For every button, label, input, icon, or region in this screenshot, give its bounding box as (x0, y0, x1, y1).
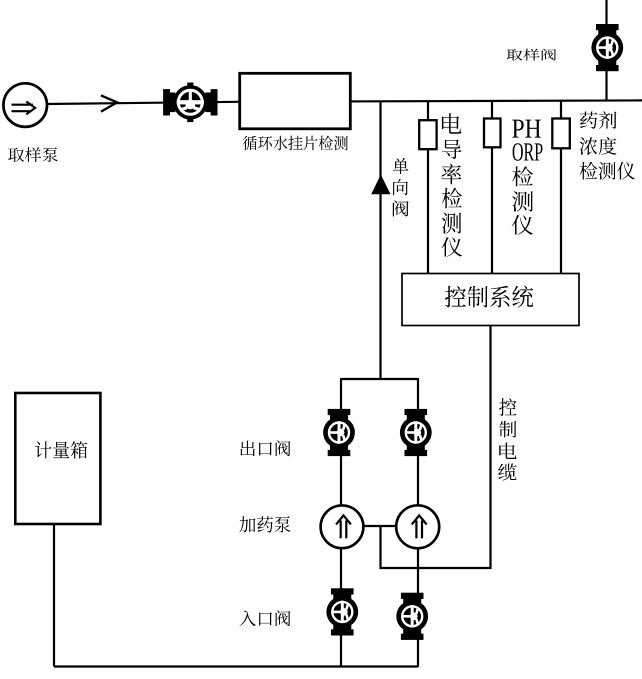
pump P2 dosing pump left circle (321, 505, 364, 548)
valve V1 on main pipe (flanged ball valve, horizontal) (163, 83, 217, 123)
label 检测仪 line3 of concentration meter (580, 162, 635, 180)
valve V6 inlet valve right (vertical, offset left of its line) (396, 593, 428, 640)
label 取样泵 (sampling pump) (8, 147, 58, 162)
label 控制系统 (control system) (445, 286, 533, 308)
wire: conductivity meter drop (427, 101, 429, 274)
valve V4 outlet valve right (vertical) (400, 409, 432, 456)
pump P3 dosing pump right circle (396, 505, 439, 548)
flow arrowhead on main pipe (101, 95, 117, 111)
label 计量箱 (metering tank) (35, 441, 87, 458)
label 出口阀 (outlet valves) (240, 440, 290, 456)
up double-arrow inside dosing pump right (412, 515, 427, 538)
label ORP line2 of PH/ORP meter (513, 143, 543, 161)
wire: PH/ORP meter drop (491, 101, 493, 274)
instrument pocket: concentration sensor (552, 119, 570, 149)
label 电导率检测仪 vertical (conductivity meter) (441, 113, 462, 257)
instrument pocket: PH/ORP sensor (484, 119, 501, 148)
wire: metering tank outlet drop (53, 523, 55, 667)
label 循环水挂片检测 (circulating water coupon test) (243, 136, 348, 151)
wire: pump manifold top header (341, 378, 418, 380)
label 取样阀 (sampling valve) (507, 49, 557, 61)
label 单向阀 vertical (check valve) (393, 158, 409, 217)
box: 计量箱 metering tank (15, 393, 100, 524)
label PH line1 of PH/ORP meter (512, 120, 541, 138)
valve V2 取样阀 sampling valve (vertical) (591, 24, 623, 71)
wire: sampling valve riser at top right (605, 0, 607, 101)
double arrow glyph inside sampling pump (12, 102, 36, 115)
wire: concentration meter drop (560, 101, 562, 274)
label 检测仪 vertical (of PH/ORP meter) (512, 166, 534, 235)
label 浓度 line2 of concentration meter (580, 137, 617, 155)
pump P1 取样泵 sampling pump circle (3, 83, 47, 127)
up double-arrow inside dosing pump left (336, 515, 351, 538)
wire: check valve drop to pump manifold (379, 101, 381, 380)
wire: connector between the two dosing pumps (363, 525, 397, 527)
valve V5 inlet valve left (vertical) (326, 588, 358, 635)
wire: right branch (outlet valve, pump, inlet valve) (417, 378, 419, 667)
label 药剂 line1 of concentration meter (580, 111, 617, 128)
wire: bottom suction line (54, 665, 418, 667)
wire: control cable from control system to dosing pump (381, 326, 491, 568)
wire: left branch (outlet valve, pump, inlet valve) (340, 378, 342, 667)
label 入口阀 (inlet valves) (239, 610, 290, 626)
label 加药泵 (dosing pumps) (239, 516, 290, 532)
wire: main pipe from sampling pump to right edge (47, 100, 642, 104)
box: 循环水挂片检测 coupon test cell (240, 73, 351, 129)
check valve arrow 单向阀 (371, 175, 390, 195)
valve V3 outlet valve left (vertical) (323, 409, 355, 456)
label 控制电缆 vertical (control cable) (498, 398, 517, 480)
box: 控制系统 control system (402, 274, 579, 326)
instrument pocket: conductivity sensor (419, 120, 436, 149)
